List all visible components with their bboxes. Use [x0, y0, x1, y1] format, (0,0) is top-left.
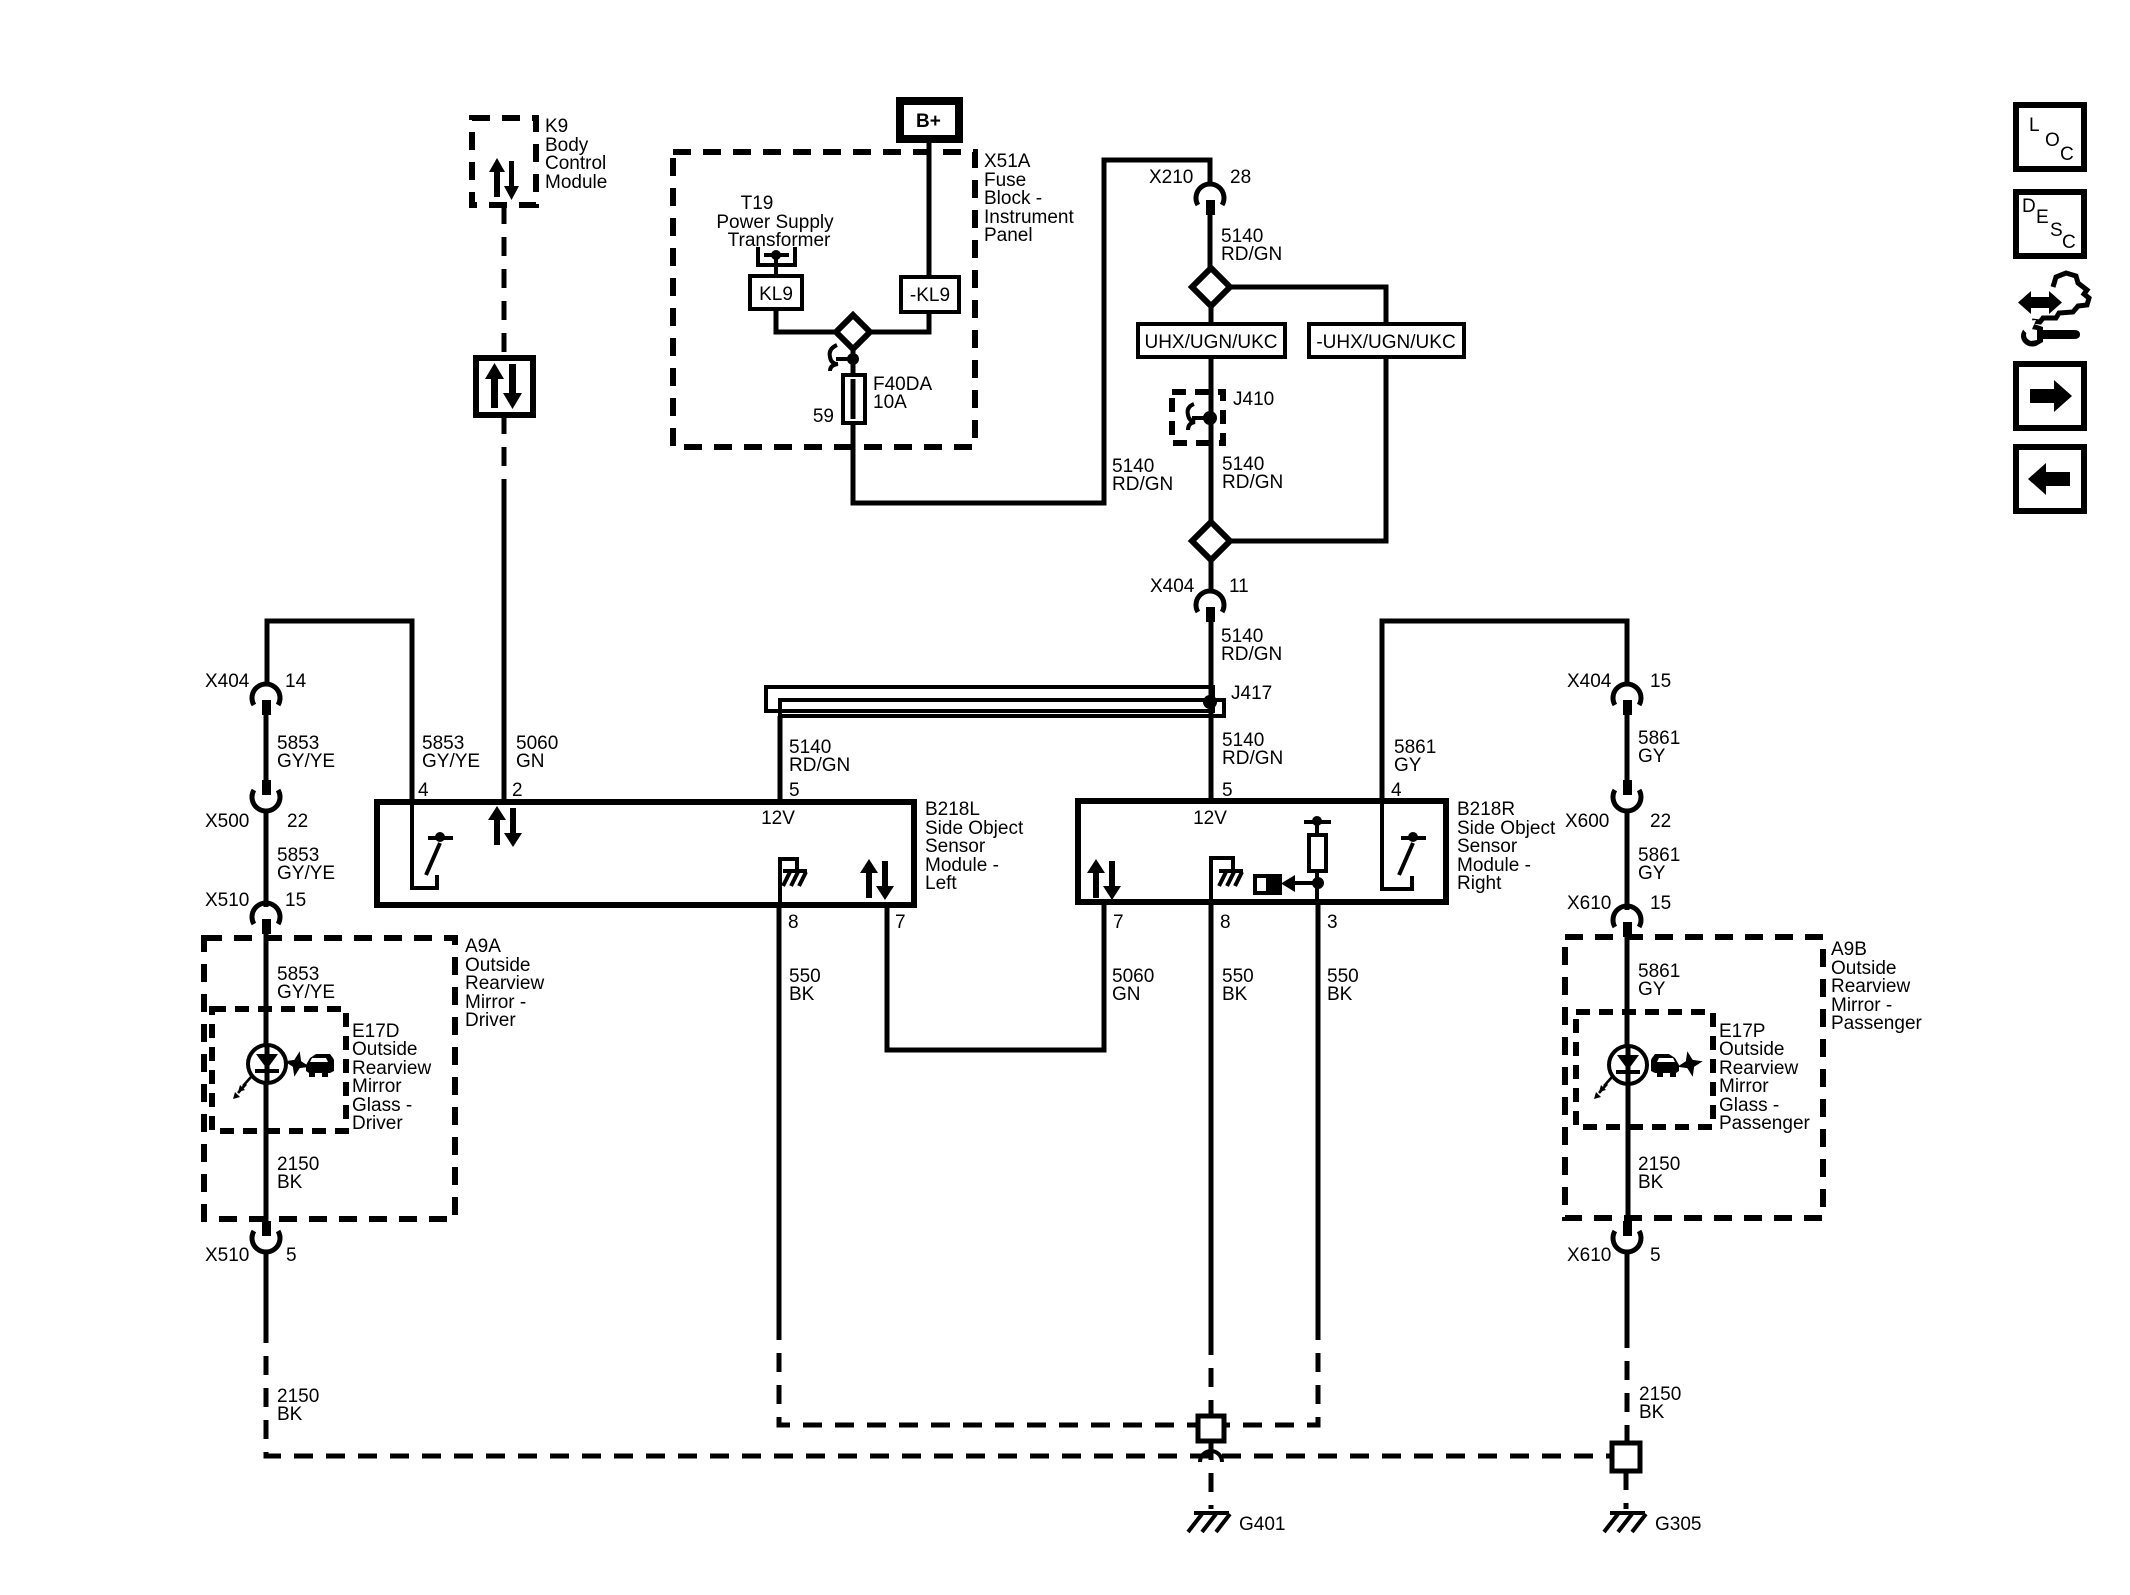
- svg-text:X404: X404: [1150, 576, 1195, 597]
- svg-text:Transformer: Transformer: [728, 230, 831, 251]
- svg-text:5: 5: [1222, 780, 1233, 801]
- junction dot above fuse: [847, 349, 859, 375]
- svg-text:GY/YE: GY/YE: [277, 863, 335, 884]
- svg-text:Outside: Outside: [1719, 1039, 1784, 1060]
- svg-text:G401: G401: [1239, 1514, 1285, 1535]
- junction box G401: [1198, 1416, 1224, 1441]
- svg-text:15: 15: [1650, 893, 1671, 914]
- svg-text:X210: X210: [1149, 167, 1193, 188]
- svg-text:D: D: [2022, 196, 2036, 217]
- svg-text:GY/YE: GY/YE: [277, 751, 335, 772]
- connector X510 pin 5: [205, 1221, 297, 1266]
- svg-text:5: 5: [1650, 1245, 1661, 1266]
- car icon E17P: [1651, 1054, 1679, 1077]
- svg-text:2: 2: [512, 780, 523, 801]
- svg-text:Mirror: Mirror: [1719, 1076, 1769, 1097]
- wire -UHX branch down to lower diamond: [1230, 357, 1386, 541]
- wire 5140 RD/GN J417 to B218R pin 5: [1211, 716, 1283, 801]
- svg-text:59: 59: [813, 406, 834, 427]
- connector arc below G401 box: [1200, 1441, 1222, 1509]
- label 5861 GY at B218R pin 4: [1394, 737, 1436, 776]
- pin 8 number B218R: [1220, 912, 1231, 933]
- wire 2150 BK inside A9A: [266, 1083, 319, 1221]
- junction box G305: [1612, 1443, 1640, 1471]
- pin 2 number B218L: [512, 780, 523, 801]
- svg-text:A9A: A9A: [465, 936, 501, 957]
- terminal -KL9 box: [901, 277, 959, 312]
- wire 2150 BK below X510: [266, 1251, 319, 1425]
- wire UHX box to J410: [1209, 357, 1214, 445]
- label E17D Outside Rearview Mirror Glass - Driver: [352, 1021, 431, 1134]
- option box -UHX/UGN/UKC: [1309, 324, 1464, 357]
- fuse block X51A dashed box: [673, 152, 975, 447]
- diamond option merge lower: [1192, 522, 1230, 560]
- icon LOC button: [2016, 105, 2084, 169]
- B218R internal arrow to termination: [1281, 875, 1324, 892]
- svg-text:Block -: Block -: [984, 188, 1042, 209]
- svg-text:RD/GN: RD/GN: [1222, 748, 1283, 769]
- car icon E17D: [306, 1054, 334, 1077]
- wire 5861 GY X600-X610: [1627, 810, 1680, 910]
- connector X500 pin 22: [205, 780, 308, 832]
- wire 5140 RD/GN below X210: [1210, 215, 1282, 268]
- diamond junction in fuse block: [836, 315, 870, 349]
- power feed B+: [900, 101, 959, 139]
- wire 5140 RD/GN below J410: [1112, 443, 1283, 522]
- svg-text:12V: 12V: [1193, 808, 1227, 829]
- svg-text:Passenger: Passenger: [1719, 1113, 1811, 1134]
- svg-text:RD/GN: RD/GN: [1221, 644, 1282, 665]
- pin 3 number B218R: [1327, 912, 1338, 933]
- svg-text:BK: BK: [1639, 1402, 1665, 1423]
- svg-text:UHX/UGN/UKC: UHX/UGN/UKC: [1144, 332, 1277, 353]
- svg-text:A9B: A9B: [1831, 939, 1867, 960]
- svg-text:15: 15: [1650, 671, 1671, 692]
- connector X404 pin 11: [1150, 576, 1249, 622]
- spark symbol E17D: [282, 1049, 313, 1080]
- svg-text:RD/GN: RD/GN: [1112, 474, 1173, 495]
- wire 5861 GY X404-X600: [1627, 715, 1680, 780]
- label E17P Outside Rearview Mirror Glass - Passenger: [1719, 1021, 1811, 1134]
- svg-text:GY: GY: [1638, 746, 1666, 767]
- icon forward arrow button: [2016, 364, 2084, 428]
- svg-text:Rearview: Rearview: [1831, 976, 1910, 997]
- wire KL9 to diamond: [776, 309, 836, 332]
- svg-text:Driver: Driver: [352, 1113, 403, 1134]
- ground G305: [1604, 1513, 1701, 1535]
- svg-text:E: E: [2036, 207, 2049, 228]
- svg-text:O: O: [2045, 130, 2060, 151]
- icon wiring repair (arrow, outline, wrench): [2016, 273, 2089, 347]
- transformer T19 symbol: [758, 247, 795, 276]
- svg-text:B+: B+: [916, 111, 941, 132]
- svg-text:X610: X610: [1567, 893, 1611, 914]
- svg-text:Module: Module: [545, 172, 607, 193]
- svg-text:Sensor: Sensor: [1457, 836, 1518, 857]
- connector X404 pin 15: [1567, 671, 1671, 715]
- wire dashed 550 BK pin 8 left to G401: [779, 1333, 1198, 1425]
- wire dashed G305 box to ground: [1624, 1471, 1629, 1509]
- pin 5 number B218R: [1222, 780, 1233, 801]
- label 59 (fuse pin): [813, 406, 834, 427]
- B218R internal switch: [1382, 801, 1426, 889]
- svg-text:15: 15: [285, 890, 306, 911]
- svg-text:3: 3: [1327, 912, 1338, 933]
- label F40DA 10A: [873, 374, 932, 413]
- svg-text:BK: BK: [1638, 1172, 1664, 1193]
- svg-text:X510: X510: [205, 890, 249, 911]
- label B218R Side Object Sensor Module - Right: [1457, 799, 1556, 894]
- svg-text:Control: Control: [545, 153, 606, 174]
- label A9A Outside Rearview Mirror - Driver: [465, 936, 544, 1031]
- svg-text:BK: BK: [1222, 984, 1248, 1005]
- wire B218R pin 4 up and over to X404 pin 15: [1382, 621, 1627, 801]
- wire 5140 RD/GN to J417: [1211, 622, 1282, 687]
- pin 5 number B218L: [789, 780, 800, 801]
- module B218R Side Object Sensor Module - Right: [1078, 801, 1446, 902]
- svg-text:8: 8: [788, 912, 799, 933]
- wire 5853 GY/YE X404-X500: [266, 715, 335, 780]
- svg-text:Driver: Driver: [465, 1010, 516, 1031]
- svg-text:GY: GY: [1394, 755, 1422, 776]
- label 5060 GN at B218L pin 2: [516, 733, 558, 772]
- icon DESC button: [2016, 192, 2084, 256]
- wire diamond to -UHX branch: [1230, 287, 1386, 324]
- svg-text:RD/GN: RD/GN: [1221, 244, 1282, 265]
- svg-text:BK: BK: [789, 984, 815, 1005]
- B218R internal ground symbol: [1211, 858, 1243, 902]
- svg-text:X610: X610: [1567, 1245, 1611, 1266]
- B218L internal ground symbol: [780, 859, 807, 905]
- ground G401: [1188, 1513, 1285, 1535]
- svg-text:B218R: B218R: [1457, 799, 1515, 820]
- svg-text:X500: X500: [205, 811, 249, 832]
- svg-text:T19: T19: [741, 193, 774, 214]
- svg-text:7: 7: [895, 912, 906, 933]
- B218R 12V label: [1193, 808, 1227, 829]
- wire 550 BK B218R pin 3: [1318, 902, 1359, 1333]
- splice pack J417 bus bar: [766, 683, 1272, 716]
- LED indicator E17D: [233, 1045, 286, 1099]
- label T19 Power Supply Transformer: [716, 193, 834, 251]
- module E17P Outside Rearview Mirror Glass - Passenger (dashed box): [1576, 1012, 1713, 1127]
- svg-text:RD/GN: RD/GN: [789, 755, 850, 776]
- svg-text:X510: X510: [205, 1245, 249, 1266]
- wire dashed below driver box: [502, 415, 507, 492]
- svg-text:8: 8: [1220, 912, 1231, 933]
- svg-text:GN: GN: [1112, 984, 1141, 1005]
- svg-text:L: L: [2029, 115, 2040, 136]
- svg-text:Rearview: Rearview: [465, 973, 544, 994]
- svg-text:BK: BK: [277, 1172, 303, 1193]
- module A9B Outside Rearview Mirror - Passenger (dashed box): [1565, 937, 1823, 1218]
- B218L internal arrows near pin 7: [860, 859, 894, 900]
- svg-text:10A: 10A: [873, 392, 907, 413]
- svg-text:Right: Right: [1457, 873, 1502, 894]
- pin 4 number B218L: [418, 780, 429, 801]
- svg-text:Outside: Outside: [352, 1039, 417, 1060]
- svg-text:S: S: [2050, 220, 2063, 241]
- wire 5140 RD/GN J417 to B218L pin 5: [780, 716, 850, 802]
- svg-text:RD/GN: RD/GN: [1222, 472, 1283, 493]
- fuse F40DA 10A: [843, 375, 865, 423]
- wire 2150 BK below X610: [1627, 1251, 1681, 1423]
- wire from fuse to X210 riser: [853, 160, 1210, 503]
- pin 7 number B218L: [895, 912, 906, 933]
- label B218L Side Object Sensor Module - Left: [925, 799, 1024, 894]
- wire 5060 GN B218L pin 7 to B218R pin 7: [887, 905, 1154, 1050]
- svg-text:GY/YE: GY/YE: [422, 751, 480, 772]
- svg-text:X51A: X51A: [984, 151, 1031, 172]
- wire dashed pin 3 to G401 box: [1224, 1333, 1318, 1425]
- connector X610 pin 15: [1567, 893, 1671, 937]
- svg-text:GY: GY: [1638, 863, 1666, 884]
- B218L 12V label: [761, 808, 795, 829]
- wire 550 BK B218L pin 8: [779, 905, 821, 1333]
- svg-text:GN: GN: [516, 751, 545, 772]
- connector X610 pin 5: [1567, 1221, 1661, 1266]
- wire -KL9 to diamond: [870, 312, 929, 332]
- LED indicator E17P: [1594, 1046, 1647, 1099]
- label A9B Outside Rearview Mirror - Passenger: [1831, 939, 1923, 1034]
- svg-text:11: 11: [1229, 576, 1249, 597]
- spark symbol E17P: [1675, 1049, 1706, 1080]
- svg-text:X404: X404: [205, 671, 250, 692]
- connector X510 pin 15: [205, 890, 306, 934]
- B218R internal arrows near pin 7: [1087, 859, 1121, 900]
- connector X404 pin 14: [205, 671, 307, 715]
- B218R internal resistor with tap: [1304, 816, 1331, 902]
- svg-text:4: 4: [1391, 780, 1402, 801]
- svg-text:C: C: [2062, 232, 2076, 253]
- label 5853 GY/YE at B218L pin 4: [422, 733, 480, 772]
- module B218L Side Object Sensor Module - Left: [377, 802, 914, 905]
- svg-text:12V: 12V: [761, 808, 795, 829]
- svg-text:5: 5: [789, 780, 800, 801]
- B218L internal arrows near pin 2: [488, 806, 522, 847]
- wire 5853 GY/YE into mirror: [266, 934, 335, 1046]
- driver/receiver box on BCM wire: [476, 358, 533, 415]
- svg-text:BK: BK: [1327, 984, 1353, 1005]
- svg-text:J417: J417: [1231, 683, 1272, 704]
- svg-text:GY/YE: GY/YE: [277, 982, 335, 1003]
- svg-text:-KL9: -KL9: [910, 285, 950, 306]
- svg-text:Sensor: Sensor: [925, 836, 986, 857]
- wire dashed pin 8 right into G401 box: [1209, 1336, 1214, 1416]
- splice clamp symbol at fuse junction: [830, 345, 851, 371]
- splice J410 (dashed box): [1172, 389, 1274, 443]
- wire 5861 GY into mirror: [1627, 937, 1680, 1046]
- module K9 Body Control Module (dashed box): [472, 118, 536, 205]
- svg-text:X600: X600: [1565, 811, 1609, 832]
- icon back arrow button: [2016, 447, 2084, 511]
- svg-text:5: 5: [286, 1245, 297, 1266]
- svg-text:Passenger: Passenger: [1831, 1013, 1923, 1034]
- wire dashed from K9 to driver box: [502, 205, 507, 358]
- wire dashed 2150 BK to ground run: [266, 1333, 1612, 1456]
- svg-text:X404: X404: [1567, 671, 1612, 692]
- B218L internal switch: [412, 802, 453, 888]
- pin 7 number B218R: [1113, 912, 1124, 933]
- terminal KL9 box: [750, 276, 802, 309]
- svg-text:Panel: Panel: [984, 225, 1033, 246]
- module A9A Outside Rearview Mirror - Driver (dashed box): [204, 938, 455, 1219]
- svg-text:14: 14: [285, 671, 307, 692]
- svg-text:G305: G305: [1655, 1514, 1701, 1535]
- label K9 Body Control Module: [545, 116, 607, 193]
- svg-text:B218L: B218L: [925, 799, 980, 820]
- svg-text:KL9: KL9: [759, 284, 793, 305]
- wire diamond to X404 pin 11: [1209, 560, 1214, 592]
- svg-text:Left: Left: [925, 873, 957, 894]
- svg-text:22: 22: [1650, 811, 1671, 832]
- svg-text:28: 28: [1230, 167, 1251, 188]
- wire B+ to -KL9: [927, 139, 932, 277]
- pin 8 number B218L: [788, 912, 799, 933]
- svg-text:7: 7: [1113, 912, 1124, 933]
- connector X210 pin 28: [1149, 167, 1251, 215]
- wire B218L pin 4 up and over to X404 pin 14: [267, 621, 412, 802]
- svg-text:GY: GY: [1638, 979, 1666, 1000]
- K9 internal bidirectional arrows: [489, 158, 519, 200]
- wire 2150 BK inside A9B: [1628, 1084, 1680, 1221]
- B218R termination icon: [1255, 876, 1280, 893]
- diamond option split upper: [1192, 268, 1230, 306]
- module E17D Outside Rearview Mirror Glass - Driver (dashed box): [212, 1009, 346, 1131]
- wire 550 BK B218R pin 8: [1211, 902, 1254, 1336]
- svg-text:Mirror: Mirror: [352, 1076, 402, 1097]
- svg-text:K9: K9: [545, 116, 568, 137]
- wire 5060 GN from BCM to B218L pin 2: [502, 490, 507, 802]
- wire dashed 2150 BK to G305 box: [1625, 1329, 1630, 1443]
- svg-text:BK: BK: [277, 1404, 303, 1425]
- wire diamond to UHX box: [1209, 306, 1214, 324]
- svg-text:22: 22: [287, 811, 308, 832]
- driver box bidirectional arrows: [485, 363, 522, 409]
- label X51A Fuse Block - Instrument Panel: [984, 151, 1074, 246]
- svg-text:J410: J410: [1233, 389, 1274, 410]
- svg-text:4: 4: [418, 780, 429, 801]
- wire 5853 GY/YE X500-X510: [266, 810, 335, 907]
- connector X600 pin 22: [1565, 780, 1671, 832]
- svg-text:-UHX/UGN/UKC: -UHX/UGN/UKC: [1316, 332, 1455, 353]
- svg-text:C: C: [2060, 144, 2074, 165]
- option box UHX/UGN/UKC: [1138, 324, 1285, 357]
- pin 4 number B218R: [1391, 780, 1402, 801]
